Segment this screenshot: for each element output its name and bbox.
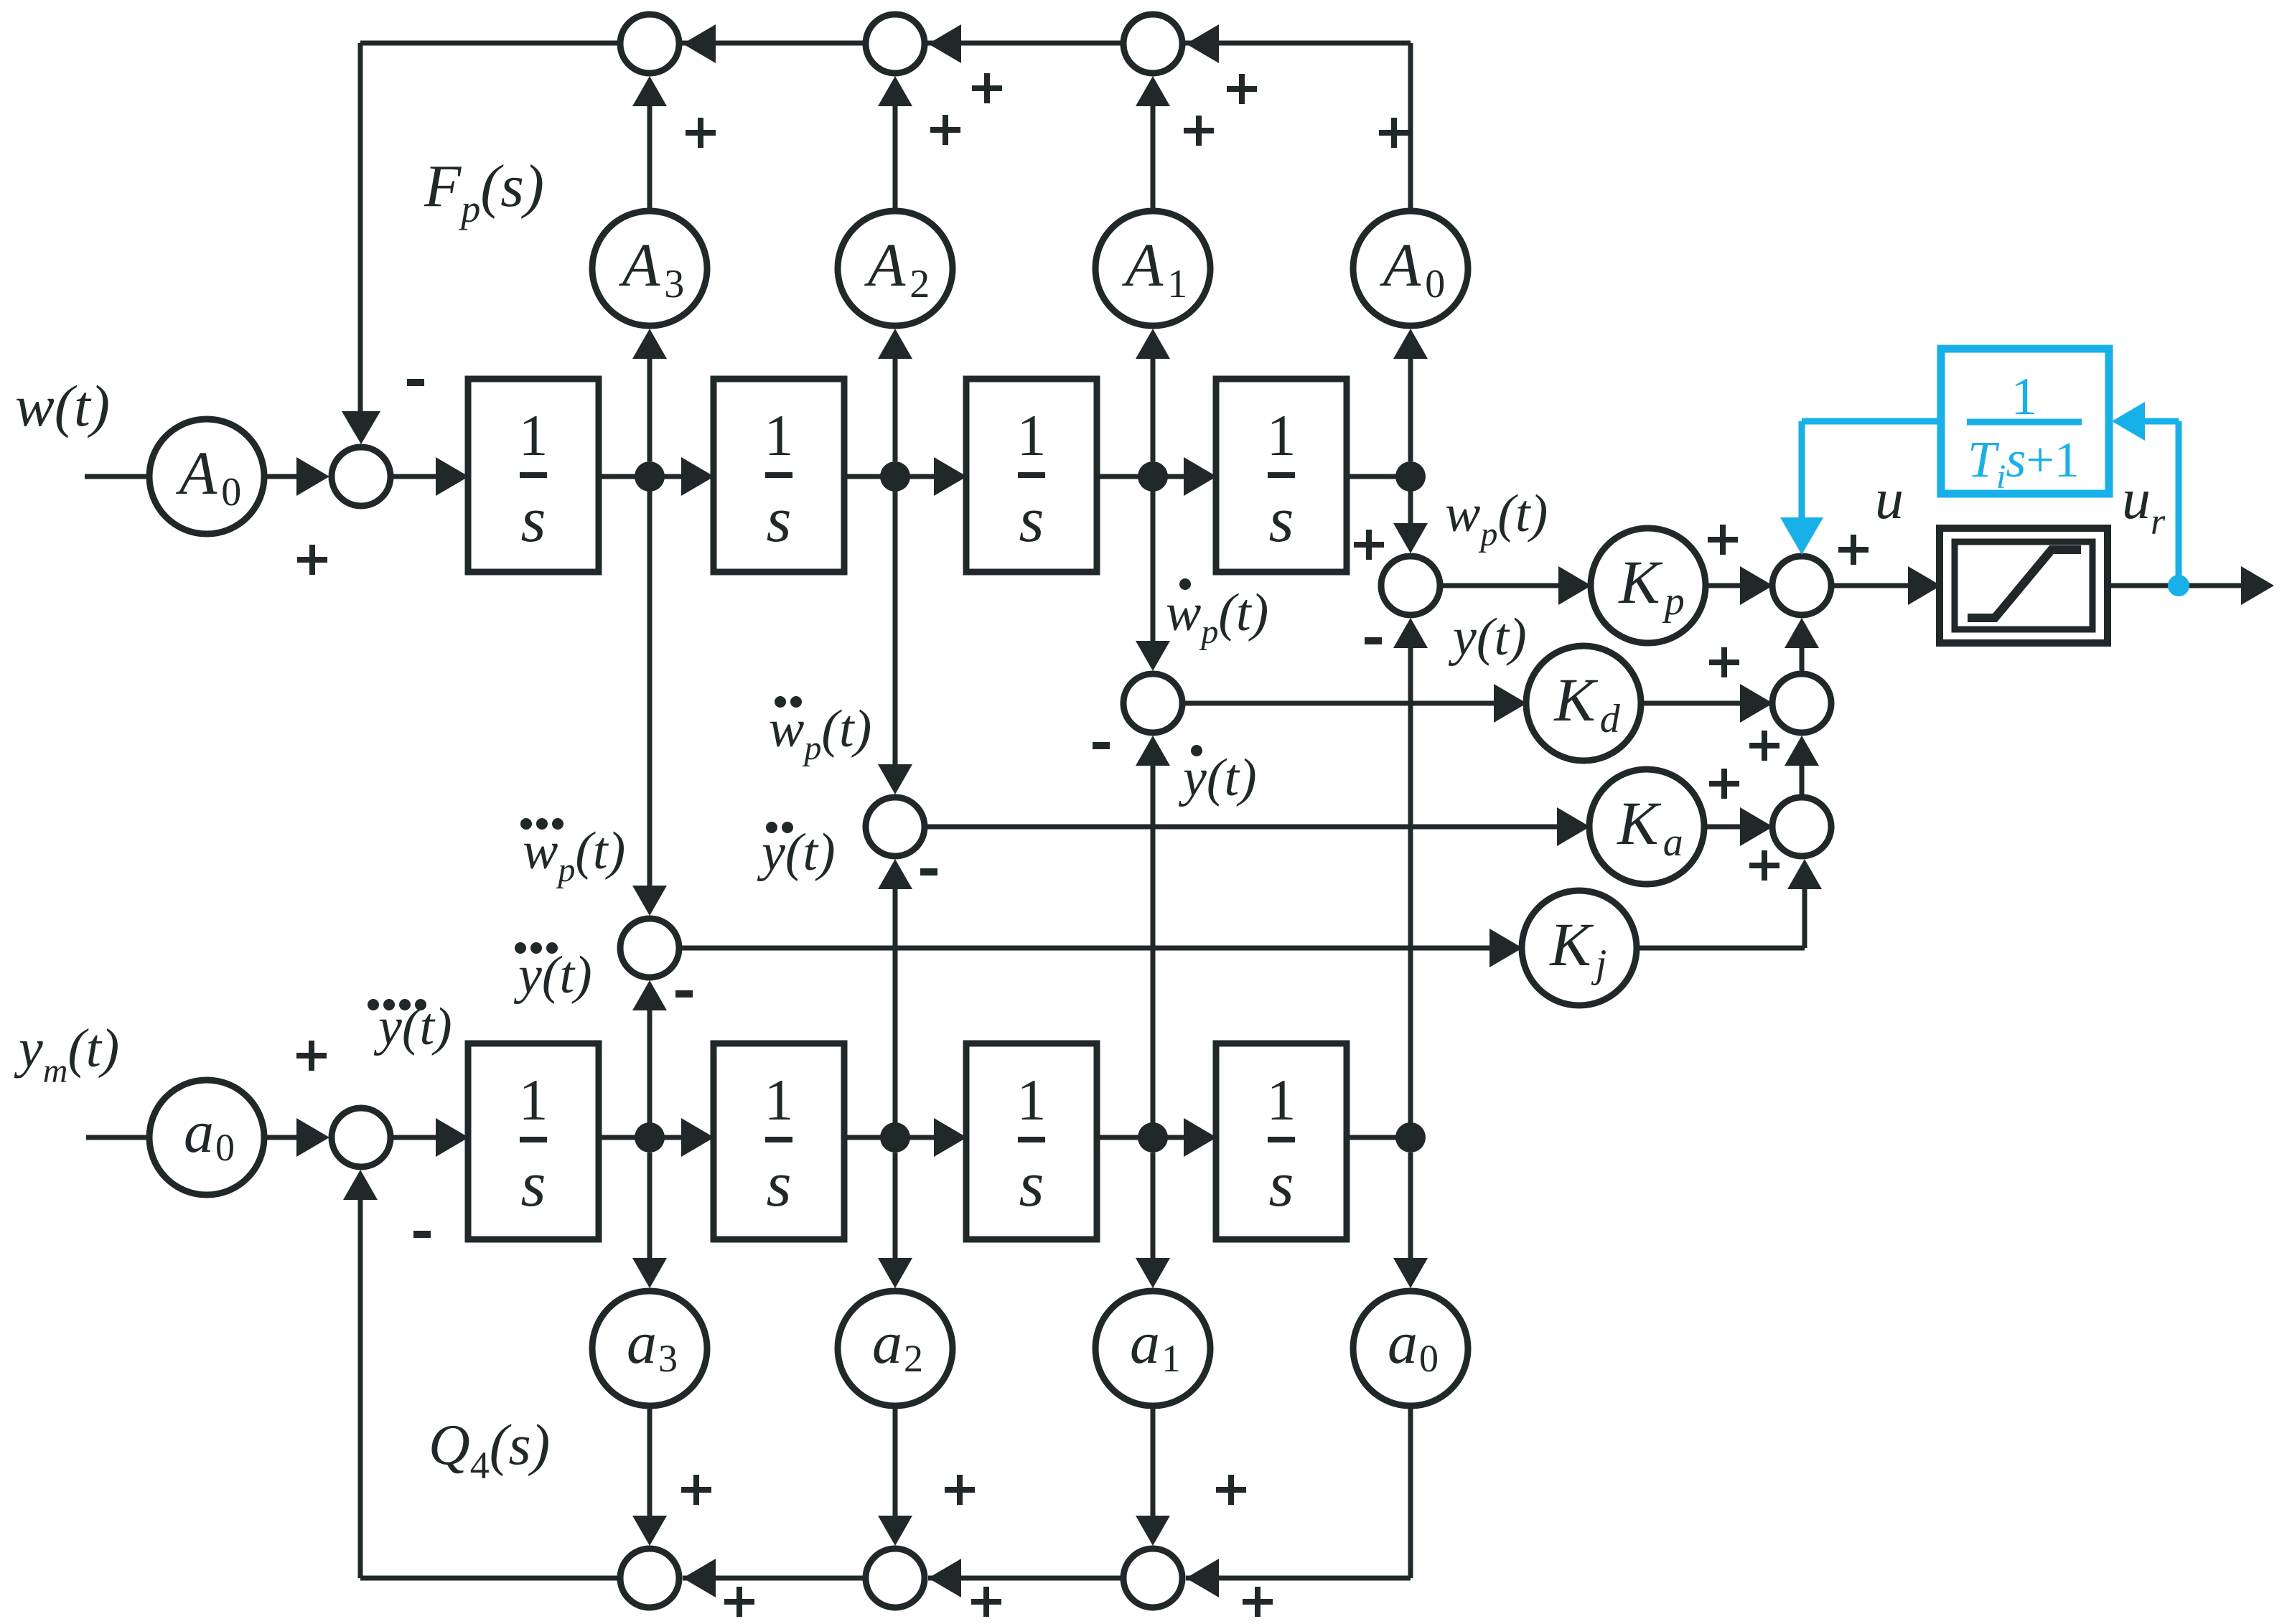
- wire A3 up into top sum: [647, 105, 653, 211]
- wire: feedback column down into S1: [358, 43, 363, 413]
- gain Kp: [1591, 528, 1706, 643]
- feedback column up into S2: [358, 1200, 363, 1578]
- svg-text:y(t): y(t): [1448, 608, 1527, 667]
- svg-text:1: 1: [1267, 1067, 1296, 1132]
- wire a3 down into bottom sum: [647, 1406, 653, 1517]
- saturation curve: [1968, 550, 2081, 618]
- svg-text:1: 1: [1017, 1067, 1047, 1132]
- svg-text:4: 4: [470, 1444, 490, 1487]
- gain A0 input: [149, 419, 264, 534]
- wire node up into A1: [1151, 357, 1156, 461]
- label y3dot(t): [515, 942, 526, 954]
- c1 vertical rail2 to WDDD: [647, 1010, 653, 1137]
- wire S2 to integrator row2: [390, 1135, 439, 1140]
- gain a0: [1353, 1291, 1468, 1406]
- integrator 1/s row2 #3: [966, 1043, 1097, 1239]
- svg-text:i: i: [1996, 458, 2006, 496]
- svg-text:1: 1: [1267, 403, 1296, 468]
- minus at S1 top input: [407, 379, 424, 386]
- label w3dot_p(t): [520, 818, 532, 830]
- label wddot_p(t): [775, 696, 786, 708]
- wire S1 to integrator1: [390, 474, 439, 479]
- sum T1: [620, 14, 679, 73]
- svg-text:0: 0: [221, 470, 241, 515]
- wire node up into A0: [1408, 357, 1413, 461]
- svg-text:p: p: [458, 187, 480, 230]
- svg-text:1: 1: [764, 1067, 794, 1132]
- svg-text:+1: +1: [2026, 433, 2079, 488]
- wire a1 down into bottom sum: [1151, 1406, 1156, 1517]
- plus at T3 input from A0: [1227, 74, 1257, 104]
- svg-text:r: r: [2151, 502, 2166, 543]
- svg-text:K: K: [1548, 910, 1594, 979]
- wire node down into a0: [1408, 1153, 1413, 1259]
- svg-text:s: s: [1019, 1149, 1044, 1220]
- plus at T2 input from A2: [930, 115, 960, 145]
- output wire: [2108, 583, 2242, 588]
- svg-text:0: 0: [1425, 262, 1445, 306]
- wire integrator1 to integrator2: [599, 474, 685, 479]
- svg-text:(t): (t): [1218, 583, 1268, 642]
- gain a2: [838, 1291, 953, 1406]
- svg-text:p: p: [1478, 515, 1497, 553]
- plus at T2 input from T3: [972, 73, 1002, 103]
- wire ym input: [86, 1135, 149, 1140]
- plus SB left input: [1709, 769, 1739, 799]
- svg-text:Q: Q: [429, 1414, 470, 1477]
- wire node up into A2: [893, 357, 898, 461]
- wire a2 down into bottom sum: [893, 1406, 898, 1517]
- sum WD: [1123, 674, 1182, 733]
- sum B2: [866, 1549, 925, 1607]
- plus S1 left input: [297, 545, 327, 575]
- plus at T3 input from A1: [1184, 116, 1214, 146]
- wdd junction: [893, 477, 898, 764]
- plus at A0 corner feed: [1379, 118, 1409, 148]
- svg-text:m: m: [43, 1052, 68, 1090]
- svg-text:2: 2: [909, 262, 930, 306]
- sum WDDD: [620, 919, 679, 977]
- plus at B2 input from a2: [945, 1475, 975, 1505]
- sum WP: [1381, 556, 1440, 615]
- arrow into T1: [683, 24, 716, 63]
- svg-text:p: p: [802, 729, 821, 767]
- minus WDDD bottom input: [675, 990, 693, 998]
- wire integrator2 to integrator3: [844, 474, 937, 479]
- sum B3: [1123, 1549, 1182, 1607]
- wire row2 integrator2 to 3: [844, 1135, 937, 1140]
- svg-text:A: A: [176, 438, 218, 507]
- gain a3: [592, 1291, 707, 1406]
- svg-text:u: u: [1875, 468, 1904, 531]
- svg-text:p: p: [1199, 613, 1218, 651]
- wire B1 to feedback corner: [360, 1576, 620, 1581]
- wire a0 to S2: [264, 1135, 297, 1140]
- wire a0 down to bottom-right corner: [1408, 1406, 1413, 1578]
- wire U to saturation: [1831, 583, 1909, 588]
- top feedback rail: [360, 41, 1411, 46]
- svg-text:w: w: [523, 822, 558, 881]
- svg-text:s: s: [1268, 1149, 1294, 1220]
- svg-text:y(t): y(t): [513, 946, 592, 1005]
- sum T2: [866, 14, 925, 73]
- arrow into T3: [1186, 24, 1219, 63]
- svg-text:s: s: [520, 1149, 546, 1220]
- svg-text:s: s: [766, 484, 791, 555]
- node rail1-c3: [1138, 461, 1168, 492]
- svg-text:u: u: [2122, 468, 2151, 531]
- blue wire block to U: [1802, 418, 1941, 425]
- plus Kj-to-SB: [1749, 850, 1779, 881]
- plus SA left input: [1709, 647, 1739, 677]
- svg-text:s: s: [2006, 431, 2026, 488]
- plus at B1 input from a3: [681, 1475, 711, 1505]
- plus at T1 input from A3: [686, 118, 716, 148]
- minus WD bottom input: [1093, 742, 1110, 749]
- gain A0: [1353, 211, 1468, 326]
- sum S2: [332, 1108, 390, 1167]
- blue output node: [2168, 575, 2189, 596]
- blue block 1/(Tis+1): [1941, 349, 2109, 494]
- gain a0 input: [149, 1080, 264, 1195]
- wire WDD to Ka: [925, 825, 1558, 830]
- svg-text:(t): (t): [67, 1018, 119, 1079]
- wire Kj corner up to SB: [1637, 946, 1805, 951]
- svg-text:y(t): y(t): [757, 823, 836, 882]
- svg-text:a: a: [627, 1310, 657, 1376]
- svg-text:(t): (t): [1497, 484, 1548, 543]
- label ydot(t): [1191, 745, 1202, 756]
- wire A0 to S1: [264, 474, 297, 479]
- svg-text:a: a: [1130, 1310, 1160, 1376]
- c2 vertical rail2 to WDD: [893, 889, 898, 1137]
- svg-text:w: w: [769, 700, 804, 759]
- minus WDD bottom input: [920, 868, 937, 876]
- svg-text:s: s: [520, 484, 546, 555]
- svg-text:A: A: [864, 230, 906, 299]
- plus at B2 input from B3: [971, 1587, 1001, 1617]
- plus at B3 input from a1: [1216, 1475, 1246, 1505]
- wire SA up to U: [1800, 648, 1805, 674]
- svg-text:1: 1: [519, 1067, 548, 1132]
- node rail2-c3: [1138, 1122, 1168, 1153]
- svg-text:K: K: [1616, 789, 1662, 858]
- c3 vertical rail2 to WD: [1151, 766, 1156, 1137]
- svg-text:0: 0: [1419, 1337, 1439, 1380]
- integrator 1/s row2 #2: [714, 1043, 844, 1239]
- wire Kp to U: [1706, 583, 1741, 588]
- svg-text:1: 1: [1167, 262, 1187, 306]
- svg-text:a: a: [184, 1099, 214, 1165]
- wire Ka to SB: [1704, 825, 1741, 830]
- svg-text:(s): (s): [480, 153, 544, 220]
- plus SA-to-U: [1749, 731, 1779, 761]
- svg-text:A: A: [1122, 230, 1164, 299]
- svg-text:(s): (s): [490, 1414, 550, 1477]
- svg-text:3: 3: [658, 1337, 678, 1380]
- svg-text:s: s: [766, 1149, 791, 1220]
- svg-text:s: s: [1268, 484, 1294, 555]
- svg-text:y: y: [14, 1018, 43, 1079]
- svg-text:(t): (t): [821, 700, 871, 759]
- integrator 1/s row1 #4: [1216, 379, 1347, 572]
- wire WDDD to Kj: [679, 946, 1490, 951]
- svg-text:T: T: [1968, 431, 2000, 488]
- wire node up into A3: [647, 357, 653, 461]
- node rail1-c1: [635, 461, 665, 492]
- gain a1: [1095, 1291, 1210, 1406]
- svg-text:3: 3: [664, 262, 684, 306]
- sum B1: [620, 1549, 679, 1607]
- svg-text:2: 2: [904, 1337, 923, 1380]
- label yddot(t): [766, 822, 777, 833]
- integrator 1/s row1 #3: [966, 379, 1097, 572]
- svg-text:a: a: [1388, 1310, 1418, 1376]
- wire A1 up into top sum: [1151, 105, 1156, 211]
- plus WP top input: [1354, 530, 1384, 560]
- integrator 1/s row1 #1: [468, 379, 599, 572]
- svg-text:1: 1: [764, 403, 794, 468]
- arrow into T2: [928, 24, 961, 63]
- plus U blue input: [1838, 535, 1869, 565]
- svg-text:K: K: [1617, 548, 1663, 616]
- svg-text:A: A: [619, 230, 660, 299]
- wire Kd to SA: [1641, 701, 1741, 706]
- integrator 1/s row2 #4: [1216, 1043, 1347, 1239]
- svg-text:(t): (t): [575, 822, 625, 881]
- gain A1: [1095, 211, 1210, 326]
- svg-text:y(t): y(t): [1178, 748, 1257, 807]
- svg-text:w: w: [1445, 484, 1480, 543]
- label y4dot(t): [368, 999, 379, 1010]
- node rail2-c2: [880, 1122, 910, 1153]
- svg-text:a: a: [1663, 820, 1683, 865]
- wire WP to Kp: [1440, 583, 1559, 588]
- sum SB: [1772, 797, 1831, 856]
- svg-text:F: F: [424, 153, 462, 220]
- wire A2 up into top sum: [893, 105, 898, 211]
- wire w(t) input: [85, 474, 149, 479]
- plus Kp output: [1708, 525, 1738, 555]
- gain Kj: [1522, 891, 1637, 1005]
- plus at B1 input from B2: [724, 1587, 754, 1617]
- plus at B3 input from corner: [1243, 1587, 1273, 1617]
- wire row2 integrator1 to 2: [599, 1135, 685, 1140]
- gain Kd: [1526, 646, 1641, 761]
- wire row2 integrator4 to node y: [1347, 1135, 1411, 1140]
- wire node down into a1: [1151, 1153, 1156, 1259]
- wire node down into a2: [893, 1153, 898, 1259]
- node rail1-c2: [880, 461, 910, 492]
- svg-text:a: a: [872, 1310, 902, 1376]
- minus WP bottom input: [1365, 637, 1382, 644]
- svg-text:y(t): y(t): [373, 998, 452, 1056]
- wd junction: [1151, 477, 1156, 641]
- svg-text:1: 1: [1017, 403, 1047, 468]
- node rail2-c1: [635, 1122, 665, 1153]
- wire integrator4 to node wp: [1347, 474, 1411, 479]
- sum WDD: [866, 797, 925, 856]
- svg-text:d: d: [1600, 697, 1621, 741]
- sum S1: [332, 447, 390, 506]
- svg-text:K: K: [1553, 665, 1599, 734]
- label wdot_p(t): [1179, 578, 1191, 590]
- svg-text:1: 1: [2011, 367, 2038, 426]
- wire B3 to B2: [928, 1576, 1123, 1581]
- svg-text:p: p: [556, 851, 575, 889]
- y(t) vertical from rail2 to WP: [1408, 648, 1413, 1137]
- wire B2 to B1: [683, 1576, 866, 1581]
- node rail2-c4 (y): [1395, 1122, 1426, 1153]
- svg-text:1: 1: [1161, 1337, 1181, 1380]
- wddd junction: [647, 477, 653, 886]
- minus S2 bottom input: [413, 1231, 431, 1238]
- integrator 1/s row2 #1: [468, 1043, 599, 1239]
- svg-text:s: s: [1019, 484, 1044, 555]
- svg-text:w(t): w(t): [15, 373, 110, 438]
- gain A3: [592, 211, 707, 326]
- wire SB up to SA: [1800, 766, 1805, 797]
- sum T3: [1123, 14, 1182, 73]
- svg-text:w: w: [1166, 583, 1201, 642]
- node rail1-c4 (wp): [1395, 461, 1426, 492]
- wire row2 integrator3 to 4: [1097, 1135, 1187, 1140]
- sum U: [1772, 556, 1831, 615]
- svg-text:0: 0: [215, 1126, 235, 1169]
- node to WP sum: [1408, 477, 1413, 523]
- gain A2: [838, 211, 953, 326]
- integrator 1/s row1 #2: [714, 379, 844, 572]
- svg-text:p: p: [1662, 579, 1685, 624]
- sum SA: [1772, 674, 1831, 733]
- blue wire node to block: [2176, 421, 2182, 583]
- wire integrator3 to integrator4: [1097, 474, 1187, 479]
- wire node down into a3: [647, 1153, 653, 1259]
- svg-text:A: A: [1380, 230, 1421, 299]
- svg-text:1: 1: [519, 403, 548, 468]
- plus S2 left/top: [296, 1041, 327, 1071]
- wire corner to B3: [1186, 1576, 1411, 1581]
- saturation block: [1940, 528, 2108, 643]
- wire A0 up to top-right corner: [1408, 43, 1413, 211]
- wire WD to Kd: [1182, 701, 1495, 706]
- gain Ka: [1589, 769, 1704, 884]
